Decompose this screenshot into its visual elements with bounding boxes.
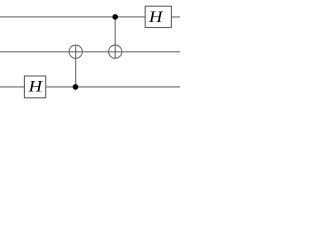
gate H2 box (top wire Hadamard) (145, 6, 171, 27)
wire q2 (bottom qubit wire) (0, 86, 180, 88)
svg-text:H: H (28, 79, 44, 96)
wire q1 (middle qubit wire) (0, 51, 180, 53)
wire q0 (top qubit wire) (0, 16, 180, 18)
svg-text:H: H (148, 9, 164, 26)
gate H1 box (bottom wire Hadamard) (24, 76, 45, 98)
control dot CNOT1 (bottom wire) (73, 84, 79, 90)
wire vertical CNOT1 control-to-target link (75, 45, 77, 87)
target circle CNOT2 (XOR symbol on middle wire) (109, 45, 122, 58)
wire vertical CNOT2 control-to-target link (114, 17, 116, 59)
target circle CNOT1 (XOR symbol on middle wire) (69, 45, 82, 58)
control dot CNOT2 (top wire) (112, 14, 118, 20)
